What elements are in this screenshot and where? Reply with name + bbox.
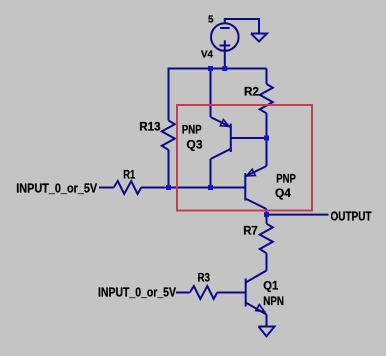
svg-text:R2: R2	[244, 86, 259, 98]
wire V4 bottom to rail	[224, 51, 226, 69]
wire top rail	[169, 68, 267, 70]
junction node rail-V4	[222, 66, 227, 71]
svg-text:R3: R3	[198, 273, 211, 285]
ground (bottom)	[259, 327, 275, 337]
wire input node row	[99, 187, 114, 189]
wire V4 top to ground	[224, 19, 259, 34]
transistor Q4	[266, 138, 268, 166]
junction node R13 bottom	[166, 185, 171, 190]
junction node output	[264, 212, 269, 217]
red annotation box	[177, 105, 312, 211]
wire R7 to Q1 collector	[266, 253, 268, 270]
resistor R2	[260, 84, 273, 113]
svg-text:PNP: PNP	[276, 174, 296, 186]
wire V4 top stub	[224, 19, 226, 23]
svg-text:OUTPUT: OUTPUT	[331, 209, 372, 224]
junction node Q4 base	[208, 185, 213, 190]
V4 plus sign	[220, 45, 231, 47]
svg-text:R7: R7	[243, 226, 258, 238]
wire bottom input	[176, 292, 190, 294]
svg-text:PNP: PNP	[182, 124, 202, 136]
voltage source V4	[211, 23, 239, 51]
wire output	[267, 214, 329, 216]
junction node R2-Q3 base	[264, 136, 269, 141]
svg-text:R1: R1	[123, 169, 135, 181]
svg-text:R13: R13	[139, 122, 160, 134]
ground (top)	[251, 34, 267, 42]
wire R13 bottom	[168, 150, 170, 188]
svg-text:INPUT_0_or_5V: INPUT_0_or_5V	[16, 180, 97, 195]
svg-text:Q1: Q1	[263, 281, 279, 293]
wire rail to R13	[168, 68, 170, 121]
resistor R1	[114, 181, 142, 194]
wire rail to R2	[266, 69, 268, 85]
wire output node to R7	[266, 215, 268, 224]
V4 minus sign	[220, 27, 230, 29]
junction node rail-Q3	[208, 66, 213, 71]
svg-text:5: 5	[208, 15, 214, 26]
wire Q1 emitter to ground	[266, 315, 268, 327]
resistor R3	[190, 286, 217, 299]
wire R2 bottom	[266, 113, 268, 138]
svg-text:V4: V4	[201, 50, 213, 61]
svg-text:Q3: Q3	[186, 140, 202, 152]
wire Q1 base	[217, 292, 246, 294]
transistor Q3	[210, 69, 212, 118]
resistor R13	[162, 121, 175, 150]
resistor R7	[260, 224, 273, 254]
wire Q4 base	[211, 187, 246, 189]
wire R1 to Q4 base node	[141, 187, 210, 189]
transistor Q1	[246, 271, 267, 283]
svg-text:NPN: NPN	[263, 296, 284, 308]
svg-text:Q4: Q4	[275, 188, 292, 200]
svg-text:INPUT_0_or_5V: INPUT_0_or_5V	[98, 284, 176, 299]
